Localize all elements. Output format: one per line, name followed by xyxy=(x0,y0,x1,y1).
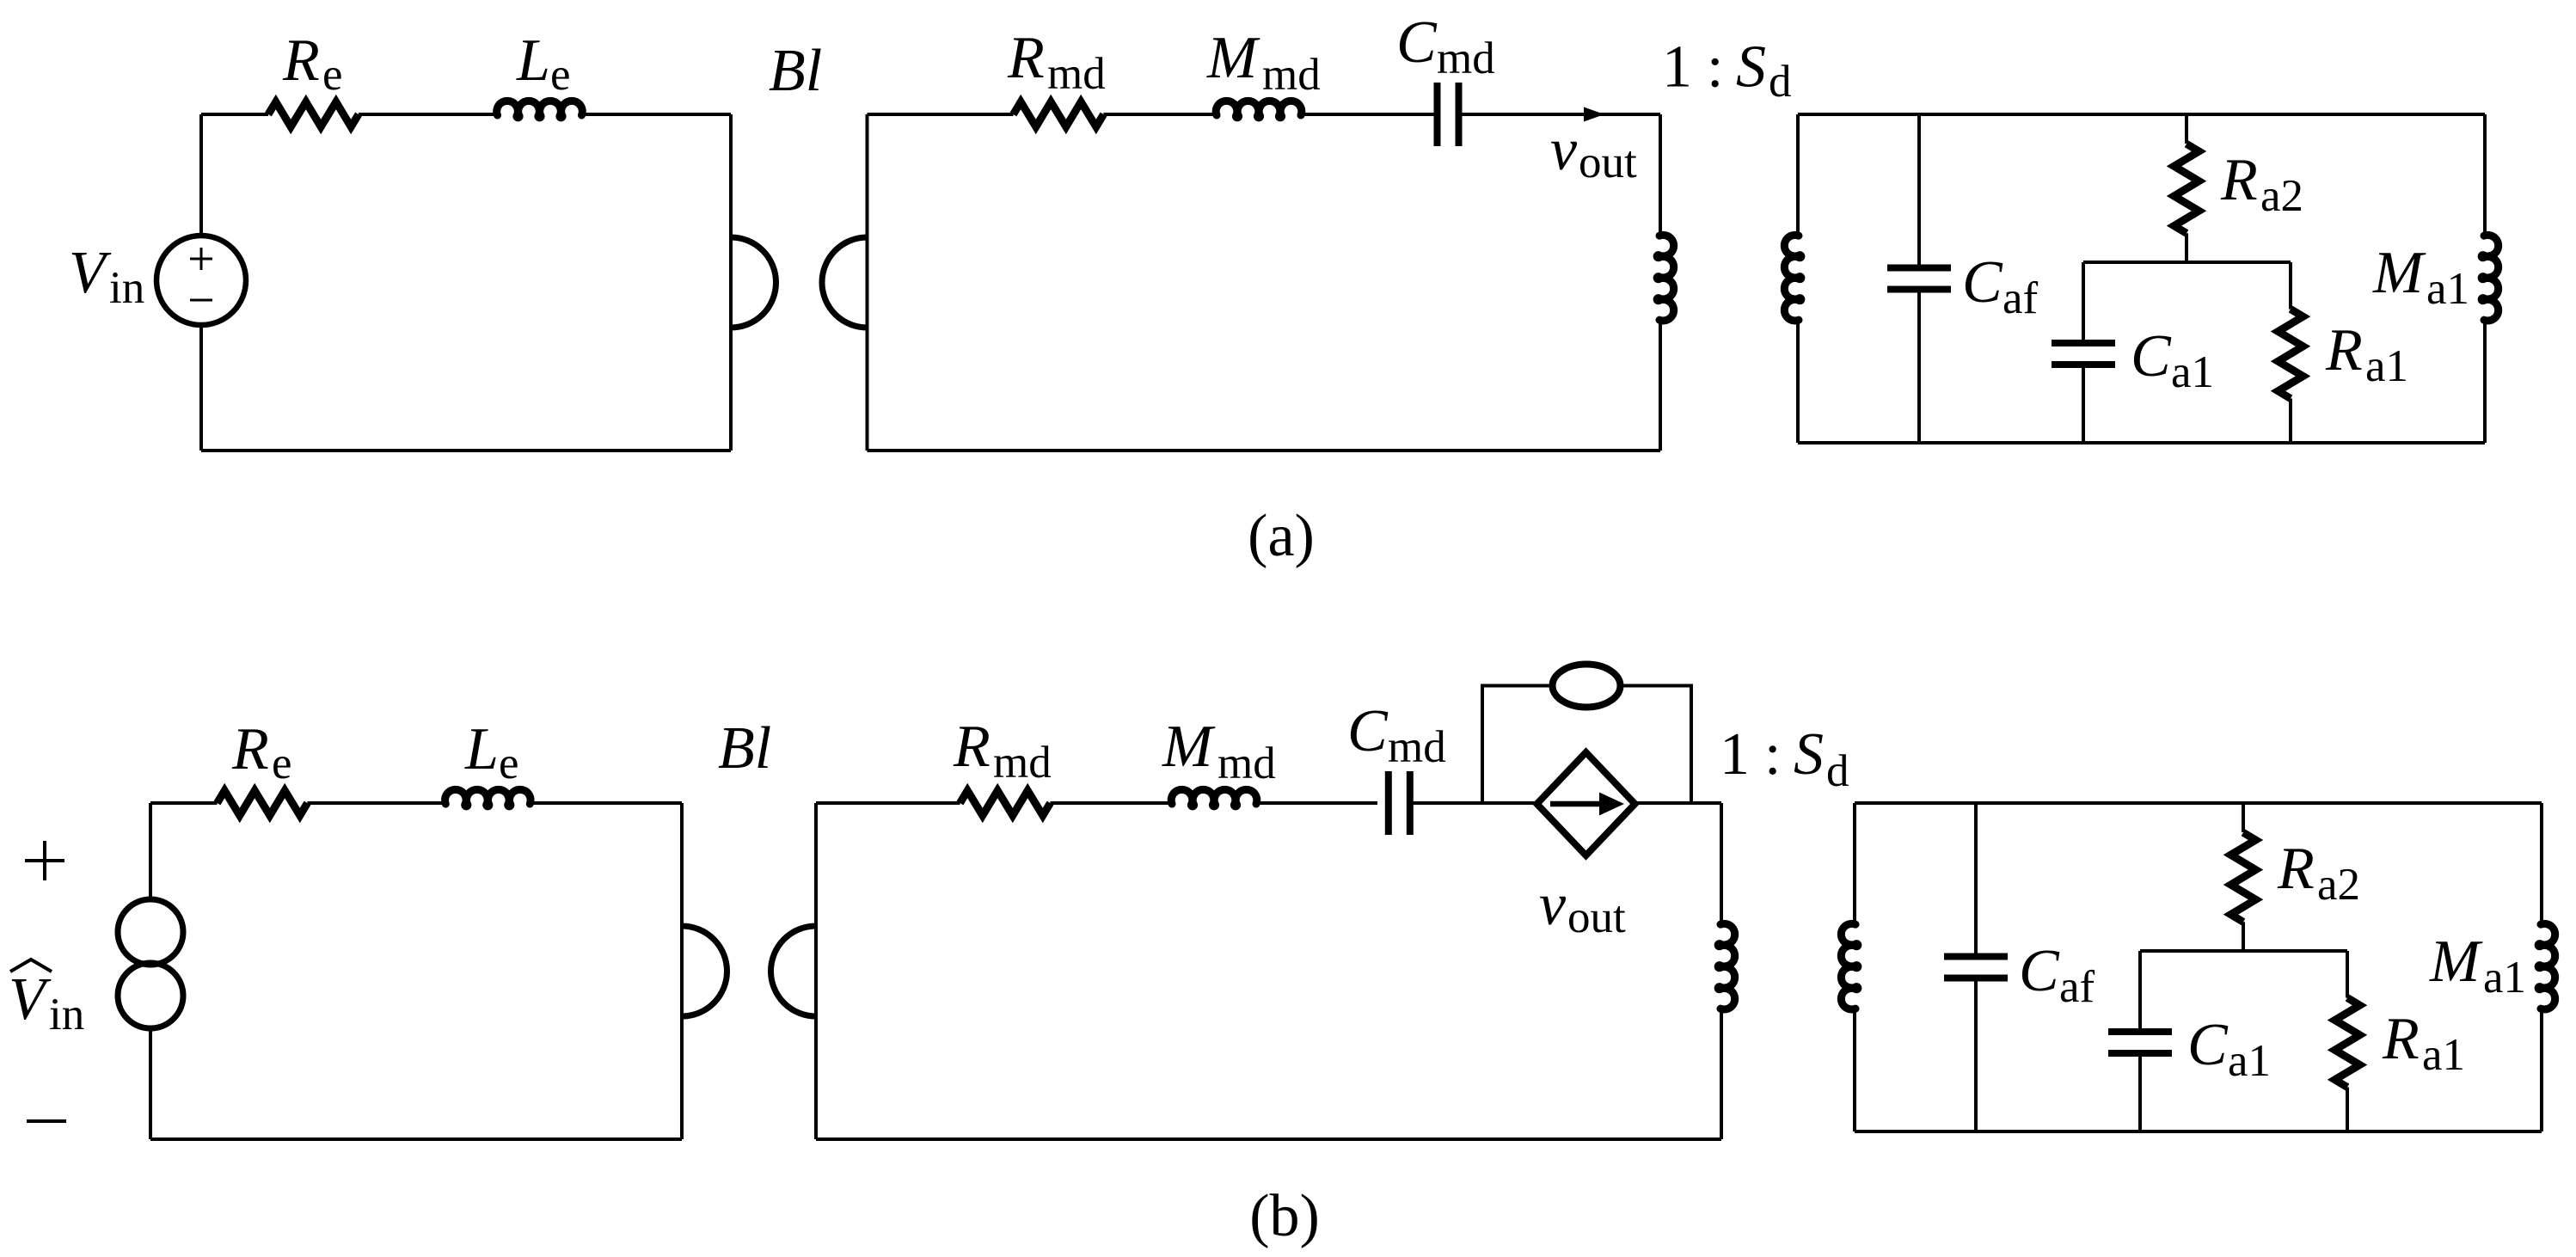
wire: (a) middle loop bottom xyxy=(868,449,1661,452)
wire: (a) middle top to R_md xyxy=(868,113,1014,116)
controlled source diamond (b) xyxy=(1537,752,1635,855)
svg-text:a1: a1 xyxy=(2426,264,2469,314)
wire: (b) top-left from source to R_e xyxy=(150,801,218,805)
wire: (a) left vertical lower xyxy=(199,328,203,451)
svg-text:L: L xyxy=(464,716,499,782)
wire: (a) R_a1 lower lead xyxy=(2289,399,2292,444)
wire: (a) C_md to transformer primary, with v_out arrow xyxy=(1462,113,1660,116)
svg-text:af: af xyxy=(2003,273,2039,323)
svg-text:L: L xyxy=(516,28,550,94)
svg-text:M: M xyxy=(1162,714,1216,780)
resistor R_md (b) xyxy=(960,791,1051,816)
svg-text:V: V xyxy=(9,966,52,1033)
svg-text:M: M xyxy=(1206,25,1260,91)
wire: (a) C_af branch upper xyxy=(1917,114,1921,268)
wire: (a) L_e to gyrator top xyxy=(582,113,732,116)
svg-text:R: R xyxy=(2382,1006,2420,1072)
svg-text:R: R xyxy=(282,28,320,94)
capacitor C_a1 (b) xyxy=(2108,1032,2172,1053)
svg-text:a1: a1 xyxy=(2422,1030,2465,1080)
svg-text:e: e xyxy=(272,739,292,788)
svg-text:S: S xyxy=(1794,721,1824,788)
wire: (b) M_md to C_md xyxy=(1260,801,1378,805)
wire: (b) middle loop bottom xyxy=(816,1137,1721,1141)
wire: (b) right loop bottom xyxy=(1855,1130,2542,1133)
wire: (a) C_af branch lower xyxy=(1917,290,1921,444)
resistor R_a1 (b) xyxy=(2335,998,2360,1088)
wire: (b) R_e to L_e xyxy=(308,801,446,805)
wire: (b) R_a1 lower lead xyxy=(2346,1088,2349,1132)
transformer secondary winding (a) xyxy=(1784,235,1801,321)
wire: (a) left loop right vertical xyxy=(729,114,733,451)
arrow v_out (a) xyxy=(1584,107,1604,122)
meter ellipse (b) xyxy=(1553,665,1621,708)
wire: (b) left loop bottom xyxy=(150,1137,682,1141)
svg-text:C: C xyxy=(2187,1012,2229,1078)
svg-text:R: R xyxy=(953,714,991,780)
wire: (a) inner box top xyxy=(2083,261,2291,264)
svg-text:md: md xyxy=(1437,34,1495,83)
wire: (a) C_a1 branch upper xyxy=(2082,262,2085,343)
svg-text:md: md xyxy=(993,738,1052,788)
wire: (a) R_a1 upper lead xyxy=(2289,262,2292,310)
V_in plus sign xyxy=(190,248,212,270)
gyrator Bl left half (a) xyxy=(731,237,776,328)
svg-text:C: C xyxy=(2019,938,2060,1004)
wire: (a) secondary upper lead xyxy=(1796,114,1800,236)
gyrator Bl left half (b) xyxy=(682,926,727,1016)
capacitor C_af (b) xyxy=(1944,957,2008,978)
wire: (b) right loop top xyxy=(1855,801,2542,805)
wire: (b) C_af branch upper xyxy=(1974,803,1978,957)
svg-text:(a): (a) xyxy=(1248,503,1315,569)
wire: (b) M_a1 upper lead xyxy=(2540,803,2543,925)
svg-text:md: md xyxy=(1047,49,1106,99)
wire: (a) R_a2 upper lead xyxy=(2185,114,2188,144)
svg-text:v: v xyxy=(1550,117,1578,183)
wire: (a) middle loop left vertical xyxy=(866,114,869,451)
wire: (a) right loop bottom xyxy=(1798,441,2485,445)
svg-text:md: md xyxy=(1217,739,1276,788)
wire: (b) left vertical lower xyxy=(149,1027,152,1139)
svg-text:(b): (b) xyxy=(1249,1183,1320,1249)
capacitor C_af (a) xyxy=(1887,268,1951,290)
svg-text:R: R xyxy=(2325,317,2363,383)
resistor R_e (b) xyxy=(218,791,308,816)
wire: (b) sensor loop right xyxy=(1624,686,1692,804)
resistor R_a1 (a) xyxy=(2279,310,2303,399)
wire: (b) C_a1 branch lower xyxy=(2138,1053,2142,1131)
wire: (a) right loop top xyxy=(1798,113,2485,116)
wire: (a) primary upper lead xyxy=(1659,114,1662,236)
svg-text:R: R xyxy=(2220,147,2258,213)
svg-text:out: out xyxy=(1567,892,1626,942)
svg-text:R: R xyxy=(2277,836,2315,902)
wire: (b) R_a2 upper lead xyxy=(2242,803,2245,832)
svg-text:1: 1 xyxy=(1662,34,1692,101)
wire: (a) left vertical upper to V_in xyxy=(199,114,203,233)
wire: (b) secondary upper lead xyxy=(1853,803,1856,925)
velocity source Vhat_in circle 1 (b) xyxy=(118,899,183,965)
svg-text:Bl: Bl xyxy=(769,38,822,104)
svg-text:out: out xyxy=(1579,138,1637,187)
resistor R_e (a) xyxy=(268,102,359,127)
wire: (b) middle loop left vertical xyxy=(814,803,818,1139)
svg-text:a1: a1 xyxy=(2483,953,2526,1003)
wire: (a) left loop bottom xyxy=(201,449,731,452)
svg-text:a2: a2 xyxy=(2317,860,2360,910)
inductor M_a1 (b) xyxy=(2538,923,2555,1009)
hat accent of Vhat_in xyxy=(10,960,52,972)
inductor L_e (a) xyxy=(497,101,583,118)
inductor M_a1 (a) xyxy=(2481,235,2499,321)
svg-text:Bl: Bl xyxy=(718,715,771,782)
svg-text:C: C xyxy=(1962,249,2003,316)
svg-text:af: af xyxy=(2059,962,2095,1012)
wire: (a) primary lower lead xyxy=(1659,320,1662,451)
capacitor C_a1 (a) xyxy=(2052,343,2115,365)
svg-text:1: 1 xyxy=(1720,721,1750,788)
svg-text:d: d xyxy=(1769,57,1792,107)
svg-text:M: M xyxy=(2372,240,2426,306)
inductor M_md (b) xyxy=(1171,789,1257,806)
svg-text::: : xyxy=(1764,721,1781,788)
svg-text:e: e xyxy=(322,50,343,100)
svg-text:in: in xyxy=(109,263,144,313)
wire: (a) R_md to M_md xyxy=(1104,113,1217,116)
wire: (b) C_md to corner via controlled source xyxy=(1413,801,1721,805)
svg-text:e: e xyxy=(499,739,519,788)
wire: (b) middle top to R_md xyxy=(816,801,960,805)
wire: (a) M_a1 lower lead xyxy=(2483,320,2487,443)
arrowhead inside diamond (b) xyxy=(1599,793,1624,816)
svg-text:S: S xyxy=(1736,34,1766,101)
svg-text:in: in xyxy=(49,990,84,1039)
wire: (b) inner box top xyxy=(2140,949,2347,953)
transformer primary winding (b) xyxy=(1718,923,1735,1009)
wire: (b) left loop right vertical xyxy=(680,803,684,1139)
wire: (b) C_a1 branch upper xyxy=(2138,951,2142,1032)
svg-text:a1: a1 xyxy=(2365,341,2408,391)
wire: (a) M_a1 upper lead xyxy=(2483,114,2487,236)
wire: (b) M_a1 lower lead xyxy=(2540,1009,2543,1131)
resistor R_a2 (a) xyxy=(2174,144,2199,233)
wire: (a) secondary lower lead xyxy=(1796,320,1800,443)
svg-text:R: R xyxy=(231,716,269,782)
svg-text:d: d xyxy=(1826,746,1849,796)
wire: (b) R_md to M_md xyxy=(1051,801,1173,805)
inductor L_e (b) xyxy=(445,789,531,806)
arrow inside diamond (b) xyxy=(1550,801,1601,807)
wire: (a) R_a2 lower lead xyxy=(2185,233,2188,262)
svg-text:R: R xyxy=(1007,25,1045,91)
minus sign (b) xyxy=(27,1119,66,1123)
svg-text:C: C xyxy=(2131,323,2172,389)
wire: (b) R_a1 upper lead xyxy=(2346,951,2349,998)
svg-text:M: M xyxy=(2429,929,2483,995)
V_in minus sign xyxy=(190,299,212,302)
svg-text:v: v xyxy=(1539,872,1567,938)
plus sign (b) xyxy=(25,841,64,880)
voltage source V_in circle (a) xyxy=(156,236,246,325)
transformer secondary winding (b) xyxy=(1841,923,1858,1009)
wire: (b) primary lower lead xyxy=(1720,1009,1723,1139)
svg-text:C: C xyxy=(1396,9,1438,76)
gyrator Bl right half (b) xyxy=(771,926,817,1016)
inductor M_md (a) xyxy=(1216,101,1302,118)
wire: (b) primary upper lead xyxy=(1720,803,1723,925)
capacitor C_md (a) xyxy=(1438,83,1459,146)
svg-text:a2: a2 xyxy=(2260,171,2303,221)
wire: (b) left vertical upper xyxy=(149,803,152,901)
transformer primary winding (a) xyxy=(1657,235,1674,321)
svg-text:V: V xyxy=(69,240,112,306)
wire: (b) secondary lower lead xyxy=(1853,1009,1856,1131)
svg-text:md: md xyxy=(1388,722,1446,772)
wire: (b) R_a2 lower lead xyxy=(2242,922,2245,951)
svg-text:md: md xyxy=(1262,50,1321,100)
resistor R_md (a) xyxy=(1014,102,1104,127)
wire: (b) sensor loop left xyxy=(1482,686,1549,804)
svg-text:a1: a1 xyxy=(2171,347,2214,397)
svg-text:e: e xyxy=(550,50,571,100)
wire: (a) C_a1 branch lower xyxy=(2082,365,2085,443)
wire: (a) M_md to C_md xyxy=(1301,113,1434,116)
wire: (a) R_e to L_e xyxy=(359,113,498,116)
velocity source Vhat_in circle 2 (b) xyxy=(118,963,183,1028)
wire: (a) top-left from source to R_e xyxy=(201,113,268,116)
svg-text:a1: a1 xyxy=(2228,1036,2271,1086)
wire: (b) C_af branch lower xyxy=(1974,978,1978,1132)
svg-text::: : xyxy=(1707,34,1723,101)
wire: (b) L_e to gyrator xyxy=(530,801,682,805)
capacitor C_md (b) xyxy=(1389,771,1410,835)
svg-text:C: C xyxy=(1347,698,1389,764)
resistor R_a2 (b) xyxy=(2231,832,2256,922)
gyrator Bl right half (a) xyxy=(822,237,868,328)
